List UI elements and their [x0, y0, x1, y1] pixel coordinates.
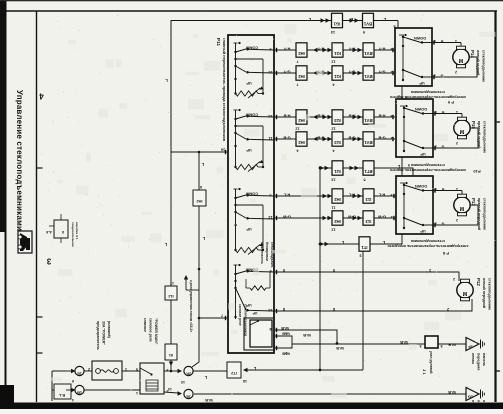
svg-text:L: L — [164, 242, 167, 247]
svg-text:1: 1 — [429, 268, 431, 272]
svg-text:выключатель: выключатель — [260, 242, 264, 264]
svg-text:4: 4 — [435, 187, 437, 191]
wire riser B — [192, 152, 199, 367]
connector 2K — [164, 370, 178, 372]
svg-text:8: 8 — [333, 307, 335, 311]
svg-text:левый передний: левый передний — [482, 278, 486, 308]
battery harness stub — [51, 371, 53, 401]
wire G-Y — [274, 72, 395, 74]
wire riser A — [170, 152, 172, 344]
wire G-W — [274, 217, 396, 219]
P11 switch unit — [234, 42, 238, 44]
junction J1 — [425, 336, 438, 348]
connector box IH2 on riser B — [193, 190, 206, 206]
svg-text:IT2: IT2 — [230, 371, 237, 376]
svg-text:W-B: W-B — [281, 326, 289, 331]
connector I13 — [363, 189, 374, 203]
breaker resistor — [234, 166, 236, 168]
svg-text:2: 2 — [453, 277, 455, 281]
contact up — [403, 37, 421, 43]
wire L to P10 switch — [320, 168, 413, 176]
svg-text:L: L — [165, 78, 168, 83]
connector I13 — [363, 211, 374, 225]
scan edge bottom black band — [0, 403, 503, 410]
svg-text:узел рулевой: узел рулевой — [429, 351, 433, 374]
svg-text:P12: P12 — [476, 278, 481, 286]
border tick — [496, 121, 501, 123]
svg-text:W-B: W-B — [400, 340, 408, 345]
diagram border top — [6, 10, 497, 12]
motor P14 — [453, 49, 469, 65]
svg-text:DOWN: DOWN — [415, 184, 427, 188]
connector IH2 — [296, 110, 307, 124]
car icon — [18, 231, 32, 253]
svg-text:BV1: BV1 — [364, 51, 373, 56]
connector IG1 — [332, 13, 343, 27]
svg-text:18: 18 — [243, 379, 247, 383]
svg-text:1E: 1E — [77, 372, 82, 377]
P11 feed stub 16 — [171, 151, 228, 153]
svg-text:BT1: BT1 — [364, 169, 373, 174]
svg-text:R: R — [441, 187, 444, 191]
connector BT1 — [363, 161, 374, 175]
svg-text:12: 12 — [331, 60, 335, 64]
motor wires — [433, 113, 462, 115]
grid tick — [37, 352, 43, 354]
svg-text:2K: 2K — [186, 372, 191, 377]
grid tick — [37, 316, 43, 318]
wire riser to P8 feed — [362, 252, 364, 371]
svg-text:L: L — [201, 162, 204, 167]
svg-text:блокировки: блокировки — [265, 242, 269, 261]
svg-text:3: 3 — [390, 193, 392, 197]
svg-text:1: 1 — [456, 187, 458, 191]
wire L bus top — [171, 21, 398, 153]
diagram border right — [494, 11, 496, 402]
svg-text:7: 7 — [296, 83, 298, 87]
svg-text:5: 5 — [363, 178, 365, 182]
svg-text:12: 12 — [295, 127, 299, 131]
connector BV1 — [363, 43, 374, 57]
svg-text:W-B: W-B — [282, 352, 290, 357]
svg-text:R-L: R-L — [283, 193, 290, 198]
svg-text:L: L — [202, 236, 205, 241]
wire R-Y — [274, 49, 395, 51]
svg-text:IU3: IU3 — [334, 118, 341, 123]
P11 switch unit — [234, 188, 238, 190]
svg-text:Управление стеклоподъемниками: Управление стеклоподъемниками — [15, 90, 24, 231]
svg-text:3: 3 — [435, 145, 437, 149]
svg-text:G: G — [441, 145, 444, 149]
svg-text:G-B: G-B — [378, 136, 385, 141]
breaker resistor — [234, 92, 236, 94]
svg-text:5: 5 — [283, 268, 285, 272]
svg-text:L: L — [308, 17, 311, 22]
svg-text:5: 5 — [269, 193, 271, 197]
svg-text:5: 5 — [405, 95, 407, 99]
svg-text:8: 8 — [62, 230, 64, 234]
wire to P12 top — [274, 272, 459, 281]
svg-text:G: G — [441, 222, 444, 226]
svg-text:I12: I12 — [168, 294, 173, 298]
breaker resistor — [234, 249, 236, 251]
switch daisy feed G2-G3 — [401, 157, 403, 176]
svg-text:IH2: IH2 — [298, 51, 305, 56]
svg-text:IH2: IH2 — [334, 219, 341, 224]
svg-text:BV1: BV1 — [364, 140, 373, 145]
motor P13 — [454, 197, 470, 213]
svg-text:BV1: BV1 — [364, 74, 373, 79]
svg-text:M: M — [459, 128, 464, 134]
svg-text:I13: I13 — [365, 197, 371, 202]
svg-text:(плавкий): (плавкий) — [107, 321, 111, 338]
motor wires — [432, 42, 461, 44]
motor P15 — [454, 120, 470, 136]
svg-text:А-6: А-6 — [46, 230, 52, 234]
svg-text:L: L — [253, 366, 256, 371]
svg-text:передняя: передняя — [477, 400, 481, 409]
svg-text:11: 11 — [331, 206, 335, 210]
connector box II1 on riser A — [165, 344, 177, 360]
svg-text:14: 14 — [168, 387, 172, 391]
svg-text:2: 2 — [390, 70, 392, 74]
svg-text:5: 5 — [136, 367, 138, 371]
connector IH2 — [296, 43, 307, 57]
svg-text:8: 8 — [269, 327, 271, 331]
svg-text:L: L — [383, 17, 386, 22]
branch to sunroof relay — [186, 289, 199, 291]
svg-text:UP: UP — [419, 81, 425, 85]
connector 1B — [66, 389, 72, 391]
svg-text:4: 4 — [434, 39, 436, 43]
svg-text:2: 2 — [390, 215, 392, 219]
connector BV1 — [363, 110, 374, 124]
svg-text:G-Y: G-Y — [283, 70, 290, 75]
contact down — [403, 70, 421, 77]
svg-text:30А "POWER": 30А "POWER" — [102, 321, 106, 345]
svg-text:стеклоподъемника: стеклоподъемника — [410, 163, 445, 167]
svg-text:правый задний: правый задний — [477, 121, 481, 148]
svg-text:1E: 1E — [186, 395, 191, 400]
inset connector sketch — [54, 220, 68, 238]
svg-text:4: 4 — [435, 110, 437, 114]
svg-text:IH2: IH2 — [298, 140, 305, 145]
svg-text:9: 9 — [363, 30, 365, 34]
svg-text:R: R — [440, 39, 443, 43]
svg-text:1B: 1B — [77, 391, 82, 396]
connector 1E — [66, 370, 72, 372]
svg-text:12: 12 — [331, 228, 335, 232]
svg-text:8: 8 — [200, 185, 202, 189]
svg-text:UP: UP — [420, 152, 426, 156]
svg-text:UP: UP — [246, 148, 252, 152]
svg-text:2: 2 — [447, 307, 449, 311]
svg-text:электродвигатель-переключатель: электродвигатель-переключатель заднего — [389, 95, 466, 99]
svg-text:R-B: R-B — [378, 114, 385, 119]
P11 power relay sub-box — [244, 318, 274, 350]
svg-text:1F: 1F — [468, 345, 473, 350]
vertical feed wire L — [319, 168, 321, 370]
connector BV1 — [363, 13, 374, 27]
motor P12 — [457, 282, 473, 298]
svg-text:IU3: IU3 — [334, 140, 341, 145]
svg-text:IG1: IG1 — [333, 21, 340, 26]
connector IU3 — [332, 110, 343, 124]
connector IH2 — [332, 189, 343, 203]
svg-text:левая: левая — [471, 353, 475, 364]
svg-text:электродвигатель-переключатель: электродвигатель-переключатель заднего — [389, 168, 466, 172]
svg-text:Р 9: Р 9 — [447, 100, 454, 105]
fuse 30A POWER — [84, 370, 92, 372]
svg-text:R: R — [441, 110, 444, 114]
connector IT1 — [359, 237, 370, 251]
svg-text:главное: главное — [143, 318, 147, 332]
ground wire to IF — [292, 343, 466, 345]
svg-text:стеклоподъемника: стеклоподъемника — [410, 239, 445, 243]
svg-text:UP: UP — [246, 81, 252, 85]
svg-text:передняя: передняя — [477, 353, 481, 370]
svg-text:8: 8 — [419, 344, 421, 348]
svg-text:панель: панель — [482, 353, 486, 367]
svg-text:13: 13 — [331, 30, 335, 34]
svg-text:3: 3 — [434, 74, 436, 78]
svg-text:стеклоподъемн.: стеклоподъемн. — [270, 242, 274, 268]
svg-text:R-Y: R-Y — [378, 47, 385, 52]
svg-text:W-B: W-B — [303, 333, 311, 338]
svg-text:3: 3 — [435, 222, 437, 226]
P11 feed stub 7 — [199, 317, 228, 319]
svg-text:8: 8 — [440, 344, 442, 348]
svg-text:коробка Э 1: коробка Э 1 — [75, 222, 79, 240]
svg-text:P13: P13 — [471, 198, 476, 206]
svg-text:IG1: IG1 — [333, 51, 340, 56]
svg-text:R-L: R-L — [58, 393, 65, 398]
svg-text:стеклоподъемника: стеклоподъемника — [410, 90, 445, 94]
contact down — [404, 218, 422, 225]
svg-text:II1: II1 — [169, 353, 173, 357]
svg-text:IU1: IU1 — [334, 169, 341, 174]
border tick — [496, 370, 501, 372]
svg-text:правая: правая — [471, 400, 475, 409]
svg-text:1: 1 — [136, 391, 138, 395]
connector box I12 on riser A — [165, 286, 177, 300]
switch box — [395, 28, 432, 86]
svg-text:IH2: IH2 — [197, 199, 203, 203]
svg-text:G-W: G-W — [378, 215, 386, 220]
svg-text:4: 4 — [39, 92, 44, 101]
svg-text:L: L — [341, 240, 344, 245]
svg-text:6: 6 — [269, 269, 271, 273]
svg-text:13: 13 — [268, 308, 272, 312]
connector IH2 — [332, 211, 343, 225]
wire R-L — [274, 195, 396, 197]
relay POWER MAIN — [122, 370, 140, 372]
svg-text:2: 2 — [88, 367, 90, 371]
svg-text:IH2: IH2 — [298, 118, 305, 123]
driver resistor — [250, 286, 266, 290]
switch daisy feed G1-G2 — [401, 86, 403, 99]
wire G-B — [274, 138, 395, 140]
svg-text:соединительная: соединительная — [71, 222, 75, 247]
svg-text:W-B: W-B — [336, 346, 344, 351]
grid tick — [37, 167, 43, 169]
svg-text:G-B: G-B — [283, 136, 290, 141]
scan edge top line — [0, 0, 503, 1]
connector IU3 — [332, 132, 343, 146]
svg-text:1: 1 — [456, 110, 458, 114]
svg-text:стеклоподъемник: стеклоподъемник — [488, 278, 492, 310]
svg-text:предохранитель: предохранитель — [96, 321, 100, 350]
connector IH2 — [296, 66, 307, 80]
P11 switch unit — [234, 264, 238, 266]
svg-text:силовое реле: силовое реле — [238, 304, 242, 326]
motor wires — [433, 190, 462, 192]
grid separator line — [36, 11, 38, 402]
svg-text:G-Y: G-Y — [378, 70, 385, 75]
svg-text:I13: I13 — [365, 219, 371, 224]
svg-text:2: 2 — [456, 218, 458, 222]
svg-text:J 1: J 1 — [422, 369, 427, 375]
svg-text:P15: P15 — [471, 121, 476, 129]
svg-text:R-L: R-L — [378, 193, 385, 198]
svg-text:стеклоподъемник: стеклоподъемник — [483, 198, 487, 230]
svg-text:L: L — [382, 240, 385, 245]
svg-text:электродвигатель-переключатель: электродвигатель-переключатель переднего — [387, 244, 469, 248]
svg-text:IH2: IH2 — [298, 74, 305, 79]
svg-text:5: 5 — [333, 268, 335, 272]
svg-text:Р10: Р10 — [473, 169, 481, 174]
scan edge left black band — [0, 0, 7, 232]
svg-text:IH2: IH2 — [334, 197, 341, 202]
svg-text:G-W: G-W — [283, 215, 291, 220]
svg-text:IG1: IG1 — [333, 74, 340, 79]
svg-text:R-B: R-B — [283, 114, 290, 119]
svg-text:2: 2 — [390, 136, 392, 140]
svg-text:3: 3 — [359, 254, 361, 258]
contact up — [404, 108, 422, 114]
svg-text:L: L — [204, 375, 207, 380]
svg-text:UP: UP — [420, 229, 426, 233]
contact up — [404, 185, 422, 191]
switch box — [396, 176, 433, 234]
ground IF — [466, 338, 479, 351]
svg-text:левый задний: левый задний — [476, 50, 480, 75]
svg-text:W-B: W-B — [205, 398, 213, 403]
svg-text:к реле управления люком <15-2>: к реле управления люком <15-2> — [189, 280, 193, 332]
P11 switch unit — [234, 109, 238, 111]
svg-text:W-B: W-B — [282, 332, 290, 337]
svg-text:2: 2 — [455, 70, 457, 74]
svg-text:панель: панель — [482, 400, 486, 409]
svg-text:P11: P11 — [216, 38, 221, 46]
svg-text:M: M — [459, 205, 464, 211]
svg-text:6: 6 — [72, 379, 74, 383]
wire L to P8 switch — [320, 234, 402, 244]
svg-text:3: 3 — [390, 114, 392, 118]
relay subbox wires W-B — [274, 336, 292, 344]
svg-text:7: 7 — [221, 314, 223, 318]
wire R-B — [274, 116, 395, 118]
svg-text:3: 3 — [390, 47, 392, 51]
connector IH2 — [296, 132, 307, 146]
svg-text:11: 11 — [268, 136, 272, 140]
svg-text:1: 1 — [455, 39, 457, 43]
svg-text:10: 10 — [268, 70, 272, 74]
connector BV1 — [363, 132, 374, 146]
svg-text:правый передний: правый передний — [477, 198, 481, 230]
svg-text:10: 10 — [181, 380, 185, 384]
connector IG1 — [332, 43, 343, 57]
svg-text:главный переключатель привода: главный переключатель привода стеклоподъ… — [222, 38, 226, 142]
wire W-B from P11 — [274, 330, 337, 344]
svg-text:UP: UP — [252, 311, 257, 315]
svg-text:3: 3 — [46, 257, 51, 266]
svg-text:8: 8 — [283, 307, 285, 311]
svg-text:Р 8: Р 8 — [442, 251, 449, 256]
svg-text:P14: P14 — [470, 50, 475, 58]
svg-text:силовое реле: силовое реле — [149, 318, 153, 342]
svg-text:DOWN: DOWN — [415, 107, 427, 111]
svg-text:7: 7 — [296, 60, 298, 64]
connector IU1 — [332, 161, 343, 175]
svg-text:5: 5 — [408, 163, 410, 167]
connector 1E2 — [164, 392, 178, 393]
main switch P11 box — [228, 35, 274, 353]
switch box — [396, 99, 433, 157]
svg-text:1G: 1G — [468, 395, 473, 400]
svg-text:"POWER MAIN": "POWER MAIN" — [154, 318, 158, 345]
svg-text:стеклоподъемников: стеклоподъемников — [244, 304, 248, 336]
svg-text:12: 12 — [331, 127, 335, 131]
svg-text:BV1: BV1 — [364, 118, 373, 123]
ground IG — [466, 388, 479, 401]
svg-text:M: M — [462, 290, 467, 296]
svg-text:R-Y: R-Y — [283, 47, 290, 52]
svg-text:13: 13 — [331, 178, 335, 182]
svg-text:BV1: BV1 — [363, 21, 372, 26]
svg-text:W-B: W-B — [448, 343, 456, 348]
svg-text:UP: UP — [246, 227, 252, 231]
svg-text:M: M — [458, 57, 463, 63]
svg-text:DOWN: DOWN — [414, 36, 426, 40]
svg-text:12: 12 — [268, 215, 272, 219]
ground wire bottom to IG — [194, 393, 466, 395]
svg-text:9: 9 — [269, 47, 271, 51]
svg-text:1: 1 — [125, 367, 127, 371]
svg-text:17: 17 — [170, 281, 174, 285]
svg-text:стеклоподъемник: стеклоподъемник — [483, 121, 487, 153]
svg-text:IT1: IT1 — [361, 245, 368, 250]
connector BV1 — [363, 66, 374, 80]
svg-text:4: 4 — [72, 398, 74, 402]
connector box IT2 — [227, 362, 241, 378]
connector IG1 — [332, 66, 343, 80]
contact down — [404, 141, 422, 148]
svg-text:2: 2 — [456, 141, 458, 145]
svg-text:W-B: W-B — [448, 390, 456, 395]
wire to P12 bottom — [274, 299, 472, 311]
